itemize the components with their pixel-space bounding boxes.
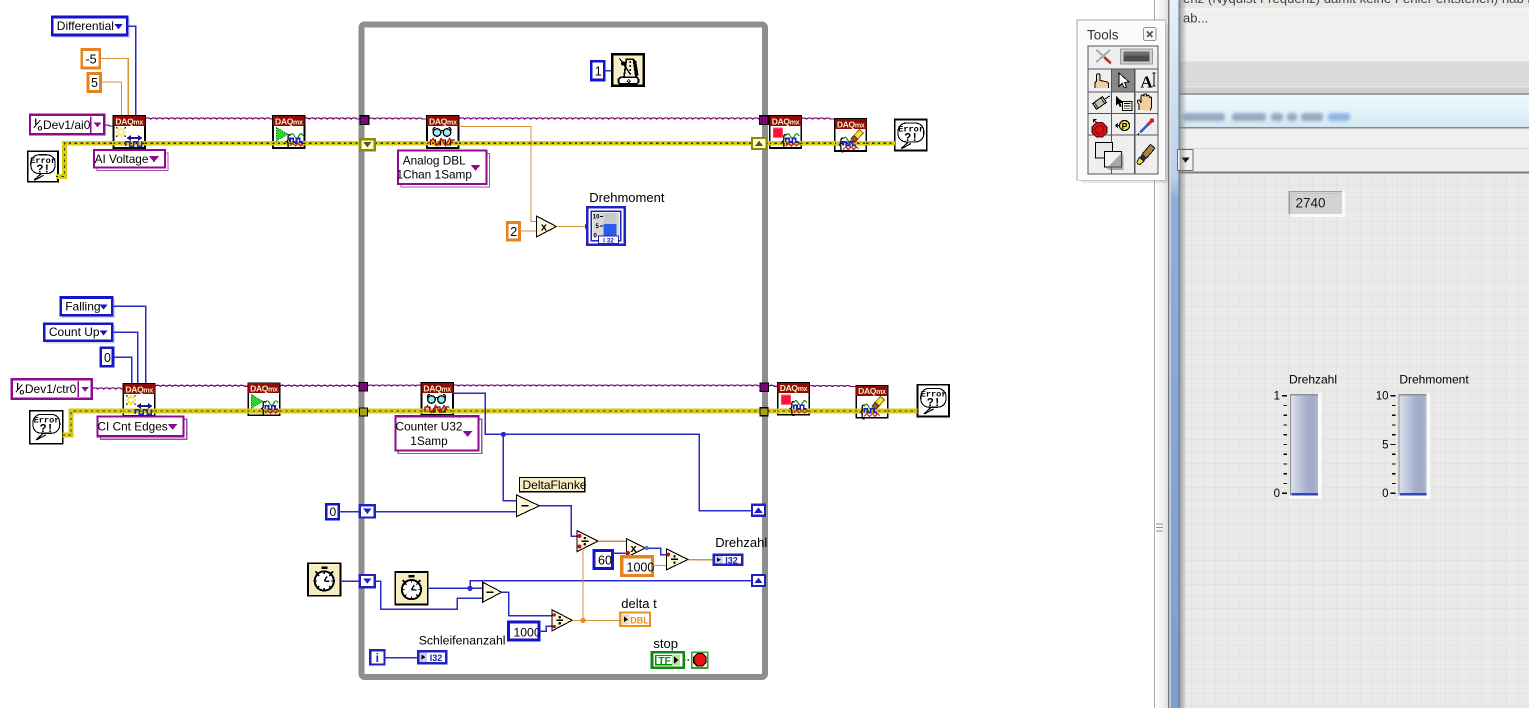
numeric constant 2 [507, 223, 519, 240]
error wire CTR [63, 411, 918, 435]
enum constant Count Up [44, 324, 114, 343]
daqmx read CTR [421, 383, 455, 415]
svg-text:stop: stop [653, 636, 678, 651]
label delta t [621, 596, 657, 611]
wire subtract to divide1 [539, 506, 577, 537]
svg-text:Falling: Falling [65, 299, 100, 313]
svg-text:Analog DBL: Analog DBL [403, 153, 466, 167]
svg-text:0: 0 [1382, 488, 1388, 500]
svg-text:Counter U32: Counter U32 [396, 420, 463, 434]
wire tick2 to subtract [428, 587, 483, 589]
svg-text:AI Voltage: AI Voltage [95, 152, 149, 166]
svg-text:enz (Nyquist Frequenz) damit k: enz (Nyquist Frequenz) damit keine Fehle… [1183, 0, 1529, 6]
svg-text:DeltaFlanke: DeltaFlanke [523, 478, 587, 492]
svg-text:Differential: Differential [57, 19, 114, 33]
svg-text:0: 0 [104, 351, 111, 365]
tank Drehzahl [1274, 391, 1322, 501]
label Schleifenanzahl [419, 633, 506, 647]
wire 2 to multiply [519, 230, 536, 232]
svg-text:0: 0 [1274, 488, 1280, 500]
divide by 1000 [666, 549, 688, 570]
tools palette grid [1088, 46, 1158, 174]
daqmx clear task AI [834, 119, 868, 153]
svg-text:x: x [630, 543, 637, 555]
svg-text:5: 5 [91, 76, 98, 90]
wire shift register to subtract [375, 511, 517, 513]
daqmx clear task CTR [855, 386, 889, 420]
tool paintbrush [1136, 144, 1155, 165]
wire task CTR create->start [155, 385, 249, 386]
junction delta t [580, 618, 585, 623]
wire multiply to divide2 [649, 548, 667, 555]
svg-text:x: x [541, 222, 548, 234]
wire 1000 to divide3 [539, 626, 552, 631]
junction counter [501, 432, 506, 437]
wire analog sample to multiply [459, 127, 537, 222]
iteration terminal i [370, 650, 384, 665]
svg-text:1Samp: 1Samp [410, 434, 448, 448]
svg-text:2740: 2740 [1296, 196, 1326, 211]
svg-text:o: o [19, 388, 24, 397]
tool get color dropper [1138, 118, 1155, 135]
wire Differential to create node [127, 26, 135, 116]
front panel left inner shadow [1180, 0, 1187, 708]
tunnel error CTR right [760, 408, 768, 416]
shift register error AI left [360, 139, 375, 150]
numeric constant 0 shiftreg [326, 504, 338, 519]
wire Falling to create [112, 306, 145, 384]
tunnel task CTR left [359, 383, 368, 392]
label Drehzahl [715, 535, 767, 550]
numeric control 2740 [1289, 192, 1345, 217]
indicator terminal Drehzahl I32 [713, 554, 743, 565]
tools palette title [1087, 28, 1119, 43]
svg-text:Tools: Tools [1087, 28, 1119, 43]
subtract DeltaFlanke [516, 495, 539, 517]
while loop border [362, 25, 766, 678]
divide edges per time [577, 531, 598, 552]
error dialog AI [895, 120, 927, 151]
wire delta t to divide1 [582, 548, 584, 620]
svg-text:delta t: delta t [621, 596, 657, 611]
numeric constant 1000 ms [622, 557, 655, 576]
label Drehmoment [589, 190, 665, 205]
tool breakpoint [1092, 120, 1107, 138]
wire TF to stop button [684, 659, 693, 661]
svg-text:Schleifenanzahl: Schleifenanzahl [419, 633, 506, 647]
daqmx create virtual channel CTR [122, 384, 155, 416]
numeric constant 60 [594, 551, 613, 569]
wire Count Up to create [112, 332, 137, 384]
tool auto select [1097, 49, 1153, 64]
wire task AI stop->clear [800, 118, 835, 119]
wire task AI start->loop tunnel [303, 118, 360, 119]
ring constant Counter U32 1Samp [395, 416, 481, 453]
wait until next ms multiple [612, 54, 644, 85]
svg-text:2: 2 [510, 225, 517, 239]
svg-text:1: 1 [595, 65, 602, 79]
boolean terminal stop TF [652, 652, 684, 668]
svg-text:I32: I32 [725, 555, 738, 565]
wire task AI read->right tunnel [459, 118, 760, 119]
svg-text:Drehzahl: Drehzahl [1289, 373, 1337, 387]
wire counter to subtract [503, 434, 516, 500]
wire delta t [572, 619, 620, 621]
indicator terminal delta t DBL [620, 613, 650, 627]
svg-text:10: 10 [593, 215, 600, 221]
tunnel task AI right [759, 116, 768, 125]
scrollbar grip [1156, 524, 1163, 532]
io constant Dev1/ai0 [30, 115, 104, 135]
svg-text:ab...: ab... [1183, 11, 1208, 26]
daqmx create virtual channel AI [113, 116, 147, 148]
front panel toolbar area [1178, 0, 1529, 173]
svg-text:1Chan 1Samp: 1Chan 1Samp [396, 168, 472, 182]
svg-text:1: 1 [1274, 391, 1280, 403]
wire multiply to Drehmoment terminal [556, 224, 589, 229]
wire task AI from Dev1/ai0 to create node [104, 125, 114, 126]
error wire AI [56, 143, 895, 176]
error cloud in 1 [28, 151, 58, 182]
svg-text:Drehzahl: Drehzahl [715, 535, 767, 550]
svg-text:Dev1/ctr0: Dev1/ctr0 [25, 382, 77, 396]
tools palette window [1077, 20, 1168, 183]
wire subtract time to divide3 [502, 592, 552, 615]
wire 0 to create [113, 357, 132, 384]
svg-text:P: P [1122, 121, 1128, 131]
shift register counter right [752, 505, 765, 516]
numeric constant 1 [591, 61, 604, 80]
enum constant Falling [61, 298, 115, 318]
svg-text:0: 0 [330, 505, 337, 519]
svg-text:1000: 1000 [627, 561, 655, 575]
svg-text:?!: ?! [904, 132, 918, 145]
wire task CTR read->right tunnel [452, 385, 760, 386]
wire task CTR start->loop tunnel [280, 385, 360, 386]
io constant Dev1/ctr0 [12, 379, 92, 398]
svg-text:I32: I32 [430, 653, 443, 663]
tick count outside [308, 563, 341, 596]
indicator terminal Drehmoment [587, 207, 625, 245]
ring constant Analog DBL 1Chan 1Samp [396, 151, 489, 188]
tank Drehmoment [1376, 391, 1430, 501]
svg-text:1000: 1000 [514, 625, 541, 639]
junction time [467, 586, 472, 591]
wire divide1 to multiply [598, 540, 626, 542]
shift register time left [360, 575, 375, 587]
tick count inside [395, 572, 428, 605]
svg-text:i: i [376, 651, 379, 665]
wire counter value [452, 393, 752, 511]
daqmx stop task AI [769, 116, 803, 150]
svg-text:60: 60 [598, 554, 612, 568]
ring constant CI Cnt Edges [98, 416, 187, 439]
wire shift register time to subtract [375, 581, 483, 609]
daqmx start task AI [272, 116, 306, 150]
tool set color [1096, 143, 1124, 171]
wire task CTR stop->clear [808, 385, 856, 386]
svg-text:10: 10 [1376, 391, 1389, 403]
wire divide2 to Drehzahl [689, 559, 714, 561]
tunnel task CTR right [760, 383, 769, 392]
daqmx stop task CTR [777, 383, 811, 417]
label fp Drehzahl [1289, 373, 1337, 387]
numeric constant -5 [82, 49, 100, 68]
svg-text:Dev1/ai0: Dev1/ai0 [43, 118, 91, 132]
label fp Drehmoment [1399, 373, 1469, 387]
scrollbar strip of diagram window [1154, 0, 1171, 708]
shift register error AI right [752, 138, 767, 149]
front panel window aero border [1171, 0, 1180, 708]
daqmx read AI [426, 116, 460, 148]
svg-text:TF: TF [658, 655, 671, 667]
tool position select [1112, 70, 1134, 92]
block diagram canvas [0, 0, 1170, 708]
tunnel error CTR left [360, 408, 368, 416]
tunnel task AI left [360, 116, 369, 125]
enum constant Differential [52, 17, 129, 37]
multiply by 60 [626, 538, 649, 557]
numeric constant 0 edge [101, 348, 113, 366]
wire -5 to create node [100, 59, 129, 117]
svg-text:?!: ?! [36, 164, 50, 177]
indicator terminal Schleifenanzahl I32 [418, 651, 447, 664]
tool connect wire [1093, 93, 1112, 109]
wire tick1 to shift register [341, 580, 360, 582]
wire time to right shift register [470, 581, 752, 589]
tool shortcut menu [1116, 96, 1132, 111]
svg-text:Count Up: Count Up [49, 325, 100, 339]
svg-text:I 32: I 32 [603, 237, 614, 244]
svg-text:?!: ?! [927, 397, 941, 410]
divide time ms [552, 610, 572, 631]
tool probe [1116, 121, 1130, 132]
svg-text:Drehmoment: Drehmoment [1399, 373, 1469, 387]
error dialog CTR [918, 385, 949, 417]
wire task AI create->start [145, 118, 273, 119]
tool scroll hand [1137, 94, 1151, 111]
svg-text:?!: ?! [40, 423, 54, 436]
tool operate value [1095, 74, 1108, 89]
svg-text:DBL: DBL [630, 616, 649, 626]
ring constant AI Voltage [94, 150, 168, 171]
wire task CTR tunnel->stop [769, 385, 778, 386]
label DeltaFlanke [520, 478, 587, 492]
wire i to Schleifenanzahl [385, 657, 418, 659]
wire task CTR inside loop to read [368, 385, 422, 386]
svg-text:o: o [38, 123, 43, 132]
svg-text:-5: -5 [86, 53, 97, 67]
label stop [653, 636, 678, 651]
error cloud in 2 [30, 411, 63, 444]
wire 60 to multiply [613, 552, 627, 554]
wire 5 to create node [101, 82, 122, 116]
svg-text:Drehmoment: Drehmoment [589, 190, 665, 205]
front panel grid [1180, 173, 1529, 708]
wire 1000 to divide2 [653, 565, 667, 567]
svg-text:CI Cnt Edges: CI Cnt Edges [98, 420, 168, 434]
subtract time [483, 582, 502, 602]
tools palette close button [1144, 28, 1157, 41]
wire task AI inside loop to read [368, 118, 427, 119]
wire 0 to shift register [339, 511, 360, 513]
multiply Drehmoment [536, 216, 556, 237]
shift register counter left [360, 505, 375, 517]
shift register time right [752, 575, 765, 586]
tool edit text [1140, 73, 1155, 92]
svg-text:5: 5 [1382, 439, 1388, 451]
stop button [692, 652, 708, 668]
wire 1 to wait [604, 70, 612, 72]
daqmx start task CTR [247, 383, 281, 417]
numeric constant 1000 time [508, 622, 540, 640]
wire task CTR from Dev1/ctr0 to create node [92, 388, 124, 389]
numeric constant 5 [88, 74, 101, 92]
svg-text:A: A [1140, 73, 1153, 92]
